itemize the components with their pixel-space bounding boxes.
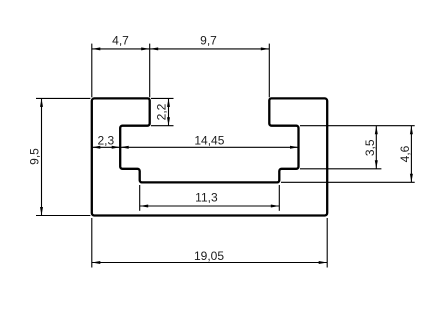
dimension 2,3 / 14,45 [92, 146, 299, 148]
svg-text:4,7: 4,7 [112, 34, 129, 48]
svg-text:19,05: 19,05 [194, 249, 224, 263]
T-slot profile outline [92, 98, 327, 215]
arrows dim 4,7 / 9,7 [92, 47, 269, 50]
dimension line 4,6 [410, 126, 412, 183]
dimension 9,5 (left) [36, 98, 90, 215]
svg-text:9,5: 9,5 [28, 148, 42, 165]
svg-text:2,2: 2,2 [154, 103, 168, 120]
dimension 4,7 / 9,7 extension lines [92, 44, 269, 98]
dimension 19,05 (overall width) [92, 218, 327, 268]
dimension 11,3 (slot floor) [140, 185, 280, 211]
svg-text:11,3: 11,3 [195, 190, 218, 204]
svg-text:2,3: 2,3 [97, 134, 114, 148]
svg-text:14,45: 14,45 [194, 134, 224, 148]
svg-text:4,6: 4,6 [398, 145, 412, 162]
dimensions 3,5 / 4,6 (right) extension lines [281, 126, 415, 183]
dimension line 3,5 [375, 126, 377, 169]
dimension line 4,7 + 9,7 [92, 48, 269, 50]
svg-text:9,7: 9,7 [200, 34, 217, 48]
svg-text:3,5: 3,5 [363, 139, 377, 156]
dimension 2,2 (throat depth) [151, 98, 174, 125]
